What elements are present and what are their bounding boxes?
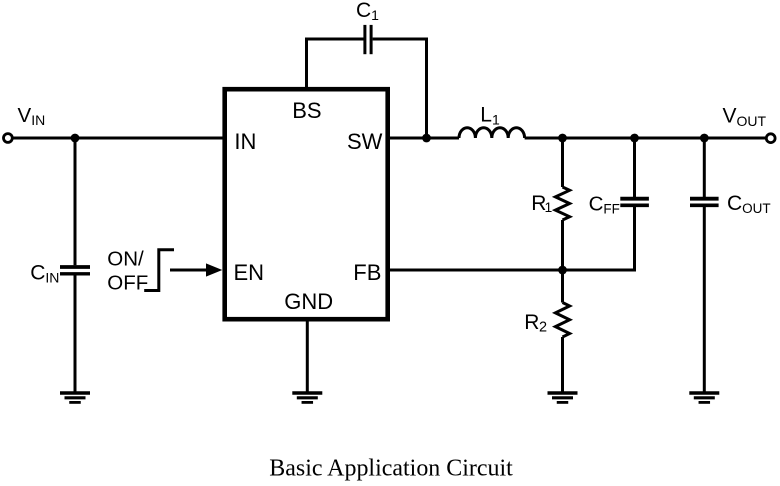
- wire output node down to R1: [561, 138, 564, 187]
- svg-text:OFF: OFF: [107, 271, 148, 294]
- wire CIN to ground: [74, 276, 77, 394]
- wire COUT top: [703, 138, 706, 197]
- junction dot output node A: [558, 134, 567, 143]
- inductor L1: [459, 128, 525, 138]
- resistor R2: [555, 303, 569, 338]
- wire GND pin down: [306, 321, 309, 393]
- wire SW pin to inductor: [388, 137, 459, 140]
- wire C1 right horizontal and drop to SW node: [373, 39, 427, 138]
- svg-text:Basic Application Circuit: Basic Application Circuit: [269, 455, 513, 481]
- svg-text:GND: GND: [284, 289, 333, 314]
- svg-text:EN: EN: [234, 260, 265, 285]
- wire VIN to IN pin: [13, 137, 225, 140]
- wire FB pin to FB node: [388, 269, 563, 272]
- capacitor C1: [365, 25, 371, 54]
- arrow into EN pin: [170, 263, 222, 276]
- step waveform symbol: [144, 250, 174, 291]
- svg-text:IN: IN: [234, 129, 256, 154]
- capacitor CFF: [620, 199, 649, 206]
- wire input node down to CIN: [74, 138, 77, 265]
- wire CFF top: [633, 138, 636, 197]
- junction dot SW node: [422, 134, 431, 143]
- capacitor CIN: [60, 267, 90, 274]
- svg-text:SW: SW: [347, 129, 383, 154]
- junction dot FB node: [558, 266, 567, 275]
- resistor R1: [555, 187, 569, 220]
- terminal VOUT (open circle): [766, 134, 775, 143]
- terminal VIN (open circle): [4, 134, 13, 143]
- junction dot COUT top: [700, 134, 709, 143]
- wire R1 to FB node: [561, 220, 564, 270]
- wire R2 to ground: [561, 337, 564, 393]
- svg-text:FB: FB: [353, 260, 381, 285]
- junction dot CFF top: [630, 134, 639, 143]
- ground (R2): [548, 393, 578, 402]
- ground (CIN): [60, 393, 90, 402]
- wire FB node down to R2: [561, 270, 564, 303]
- ground (GND pin): [292, 393, 322, 402]
- junction dot input node: [71, 134, 80, 143]
- ground (COUT): [689, 393, 719, 402]
- wire C1 left horizontal: [305, 38, 364, 41]
- wire CFF bottom to FB line: [560, 207, 635, 270]
- wire COUT to ground: [703, 207, 706, 393]
- wire inductor to VOUT: [525, 137, 767, 140]
- wire BS pin up: [305, 38, 308, 90]
- svg-text:BS: BS: [292, 98, 321, 123]
- op IC block U1: [225, 89, 388, 319]
- svg-text:ON/: ON/: [107, 248, 144, 271]
- capacitor COUT: [690, 199, 719, 206]
